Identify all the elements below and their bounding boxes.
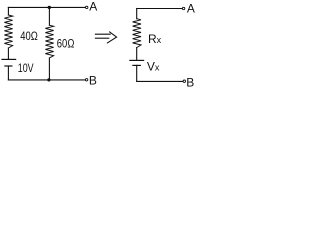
wire top rail left circuit (8, 6, 85, 8)
svg-text:A: A (187, 2, 195, 16)
terminal B right circle (183, 80, 185, 82)
wire Rx to battery Vx (136, 48, 138, 61)
svg-text:A: A (89, 0, 97, 14)
arrow implies (95, 32, 116, 43)
wire battery to bottom rail (7, 66, 9, 80)
wire 60ohm branch bottom (48, 58, 50, 80)
wire left branch top (7, 7, 9, 15)
terminal A right circle (182, 7, 184, 9)
terminal A left circle (86, 6, 88, 8)
battery 10V short plate (5, 65, 12, 67)
battery Vx short plate (133, 64, 140, 66)
wire bottom rail right circuit (137, 80, 183, 82)
svg-text:40Ω: 40Ω (20, 29, 38, 43)
svg-text:B: B (89, 74, 97, 88)
wire bottom rail left circuit (8, 79, 85, 81)
wire Rx branch top (136, 9, 138, 19)
resistor R 60ohm (45, 25, 53, 58)
svg-text:Vx: Vx (147, 60, 160, 74)
wire top rail right circuit (137, 8, 183, 10)
wire 60ohm branch top (48, 7, 50, 25)
battery Vx long plate (130, 59, 144, 61)
battery 10V long plate (2, 58, 16, 60)
node junction dot top (48, 6, 51, 9)
svg-text:60Ω: 60Ω (57, 37, 75, 51)
svg-text:B: B (186, 76, 194, 90)
resistor Rx (133, 19, 141, 48)
wire battery Vx to bottom rail (136, 65, 138, 81)
node junction dot bottom (47, 78, 50, 81)
svg-text:10V: 10V (18, 61, 34, 75)
terminal B left circle (85, 79, 87, 81)
wire 40ohm to battery (7, 48, 9, 59)
svg-text:Rx: Rx (148, 32, 162, 46)
resistor R 40ohm (4, 15, 12, 48)
